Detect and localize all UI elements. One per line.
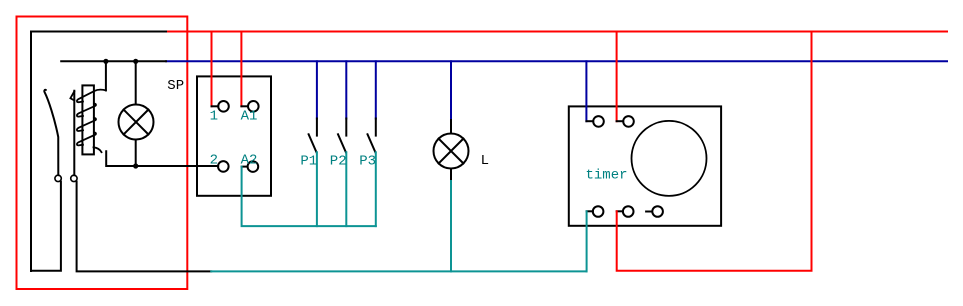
- timer top terminal 1 stub: [586, 120, 593, 122]
- lamp L: black top stub: [450, 120, 452, 134]
- pushbutton P2: blade: [338, 134, 346, 152]
- timer bottom terminal 3 circle: [652, 206, 663, 217]
- relay coil K1 winding exit curve: [94, 147, 102, 152]
- switch S1 lead (left pole down to terminal): [31, 182, 61, 271]
- wire: blue neutral rail N (second bus): [166, 60, 947, 62]
- terminal A2 circle: [248, 161, 259, 172]
- node J1 (junction dot on neutral at coil drop): [103, 59, 108, 64]
- svg-text:1: 1: [210, 108, 218, 124]
- terminal 2 circle: [218, 161, 229, 172]
- timer top terminal 2 circle: [623, 116, 634, 127]
- actuator flag triangle on contact: [70, 91, 74, 100]
- wire: coil bottom to return node: [106, 151, 218, 166]
- svg-text:A2: A2: [241, 152, 258, 168]
- wire: teal from A2 down to pushbutton bus: [242, 167, 376, 227]
- relay coil K1 winding entry curve: [77, 90, 106, 103]
- svg-text:timer: timer: [586, 168, 628, 184]
- lamp L: black bottom stub: [450, 169, 452, 182]
- terminal A2 stub: [242, 166, 247, 168]
- svg-text:A1: A1: [241, 108, 258, 124]
- pushbutton P3: lower lead to teal bus: [375, 152, 377, 226]
- wire: bottom return, teal segment to lamp L and timer: [211, 270, 586, 272]
- svg-text:P1: P1: [300, 153, 317, 169]
- timer bottom terminal 1 circle: [593, 206, 604, 217]
- terminal A1 stub: [241, 105, 248, 107]
- svg-text:SP: SP: [167, 78, 184, 94]
- lamp H1 (circle with X): [119, 105, 154, 140]
- svg-text:2: 2: [210, 152, 218, 168]
- pushbutton P1: lower lead to teal bus: [316, 152, 318, 226]
- relay coil K1 core (rectangle): [82, 85, 94, 154]
- lamp L (circle with X): [434, 134, 469, 169]
- pushbutton P1: black upper lead: [316, 119, 318, 136]
- timer bottom terminal 3 stub (unconnected): [646, 211, 652, 213]
- wire: red from timer bottom terminal 2 down-right-up to supply: [617, 32, 812, 271]
- wire: black segment of neutral inside enclosure: [61, 60, 166, 62]
- node J2 (junction dot on neutral at lamp drop): [133, 59, 138, 64]
- terminal circle (switch S1 lower): [55, 175, 61, 181]
- lamp L: blue drop: [450, 61, 452, 120]
- node J3 (junction dot lamp bottom / coil return): [133, 163, 138, 168]
- wire: lamp H1 top stub: [135, 61, 137, 104]
- pushbutton P1: blue drop: [316, 61, 318, 118]
- wire: lamp H1 bottom stub: [135, 140, 137, 167]
- wire: coil top feed: [105, 61, 107, 90]
- svg-text:L: L: [481, 153, 489, 169]
- terminal A1 circle: [248, 101, 259, 112]
- wire: red drop to terminal A1: [240, 32, 242, 107]
- pushbutton P3: black upper lead: [375, 119, 377, 136]
- wire: lamp L teal down to bottom return: [450, 181, 452, 271]
- svg-text:P2: P2: [330, 153, 347, 169]
- pushbutton P2: blue drop: [345, 61, 347, 118]
- relay coil K1 winding turn 2: [77, 104, 96, 117]
- enclosure outline (red box around relay/lamp unit): [17, 17, 188, 290]
- wire: black top feed inside enclosure: [31, 32, 166, 272]
- wire: teal from timer bottom terminal 1 to return: [586, 211, 588, 271]
- timer top terminal 2 stub: [617, 120, 624, 122]
- timer bottom terminal 1 stub: [587, 210, 593, 212]
- timer top terminal 1 circle: [593, 116, 604, 127]
- pushbutton P3: blade: [368, 134, 376, 152]
- terminal circle (relay contact lower): [71, 175, 77, 181]
- wire: red supply rail L (top bus): [166, 31, 947, 33]
- wire: blue drop to timer top terminal 1: [585, 61, 587, 121]
- relay contact line (armature, with actuator flag): [73, 91, 75, 176]
- timer dial circle: [632, 121, 707, 196]
- relay coil K1 winding turn 3: [77, 118, 96, 131]
- wire: red drop to timer top terminal 2: [616, 32, 618, 122]
- timer U1 box: [569, 106, 721, 225]
- wire: red drop to terminal 1: [211, 32, 213, 107]
- timer bottom terminal 2 circle: [623, 206, 634, 217]
- relay coil K1 winding turn 4: [77, 132, 96, 145]
- switch S1 blade (curved, open): [44, 90, 58, 175]
- wire: bottom return, black segment from contact to teal: [77, 182, 212, 272]
- svg-text:P3: P3: [359, 153, 376, 169]
- terminal 1 circle: [218, 101, 229, 112]
- timer bottom terminal 2 stub: [617, 210, 623, 212]
- pushbutton P2: black upper lead: [345, 119, 347, 136]
- terminal 1 stub: [212, 105, 219, 107]
- terminal block SP box: [197, 76, 271, 195]
- pushbutton P3: blue drop: [375, 61, 377, 118]
- pushbutton P1: blade: [309, 134, 317, 152]
- pushbutton P2: lower lead to teal bus: [345, 152, 347, 226]
